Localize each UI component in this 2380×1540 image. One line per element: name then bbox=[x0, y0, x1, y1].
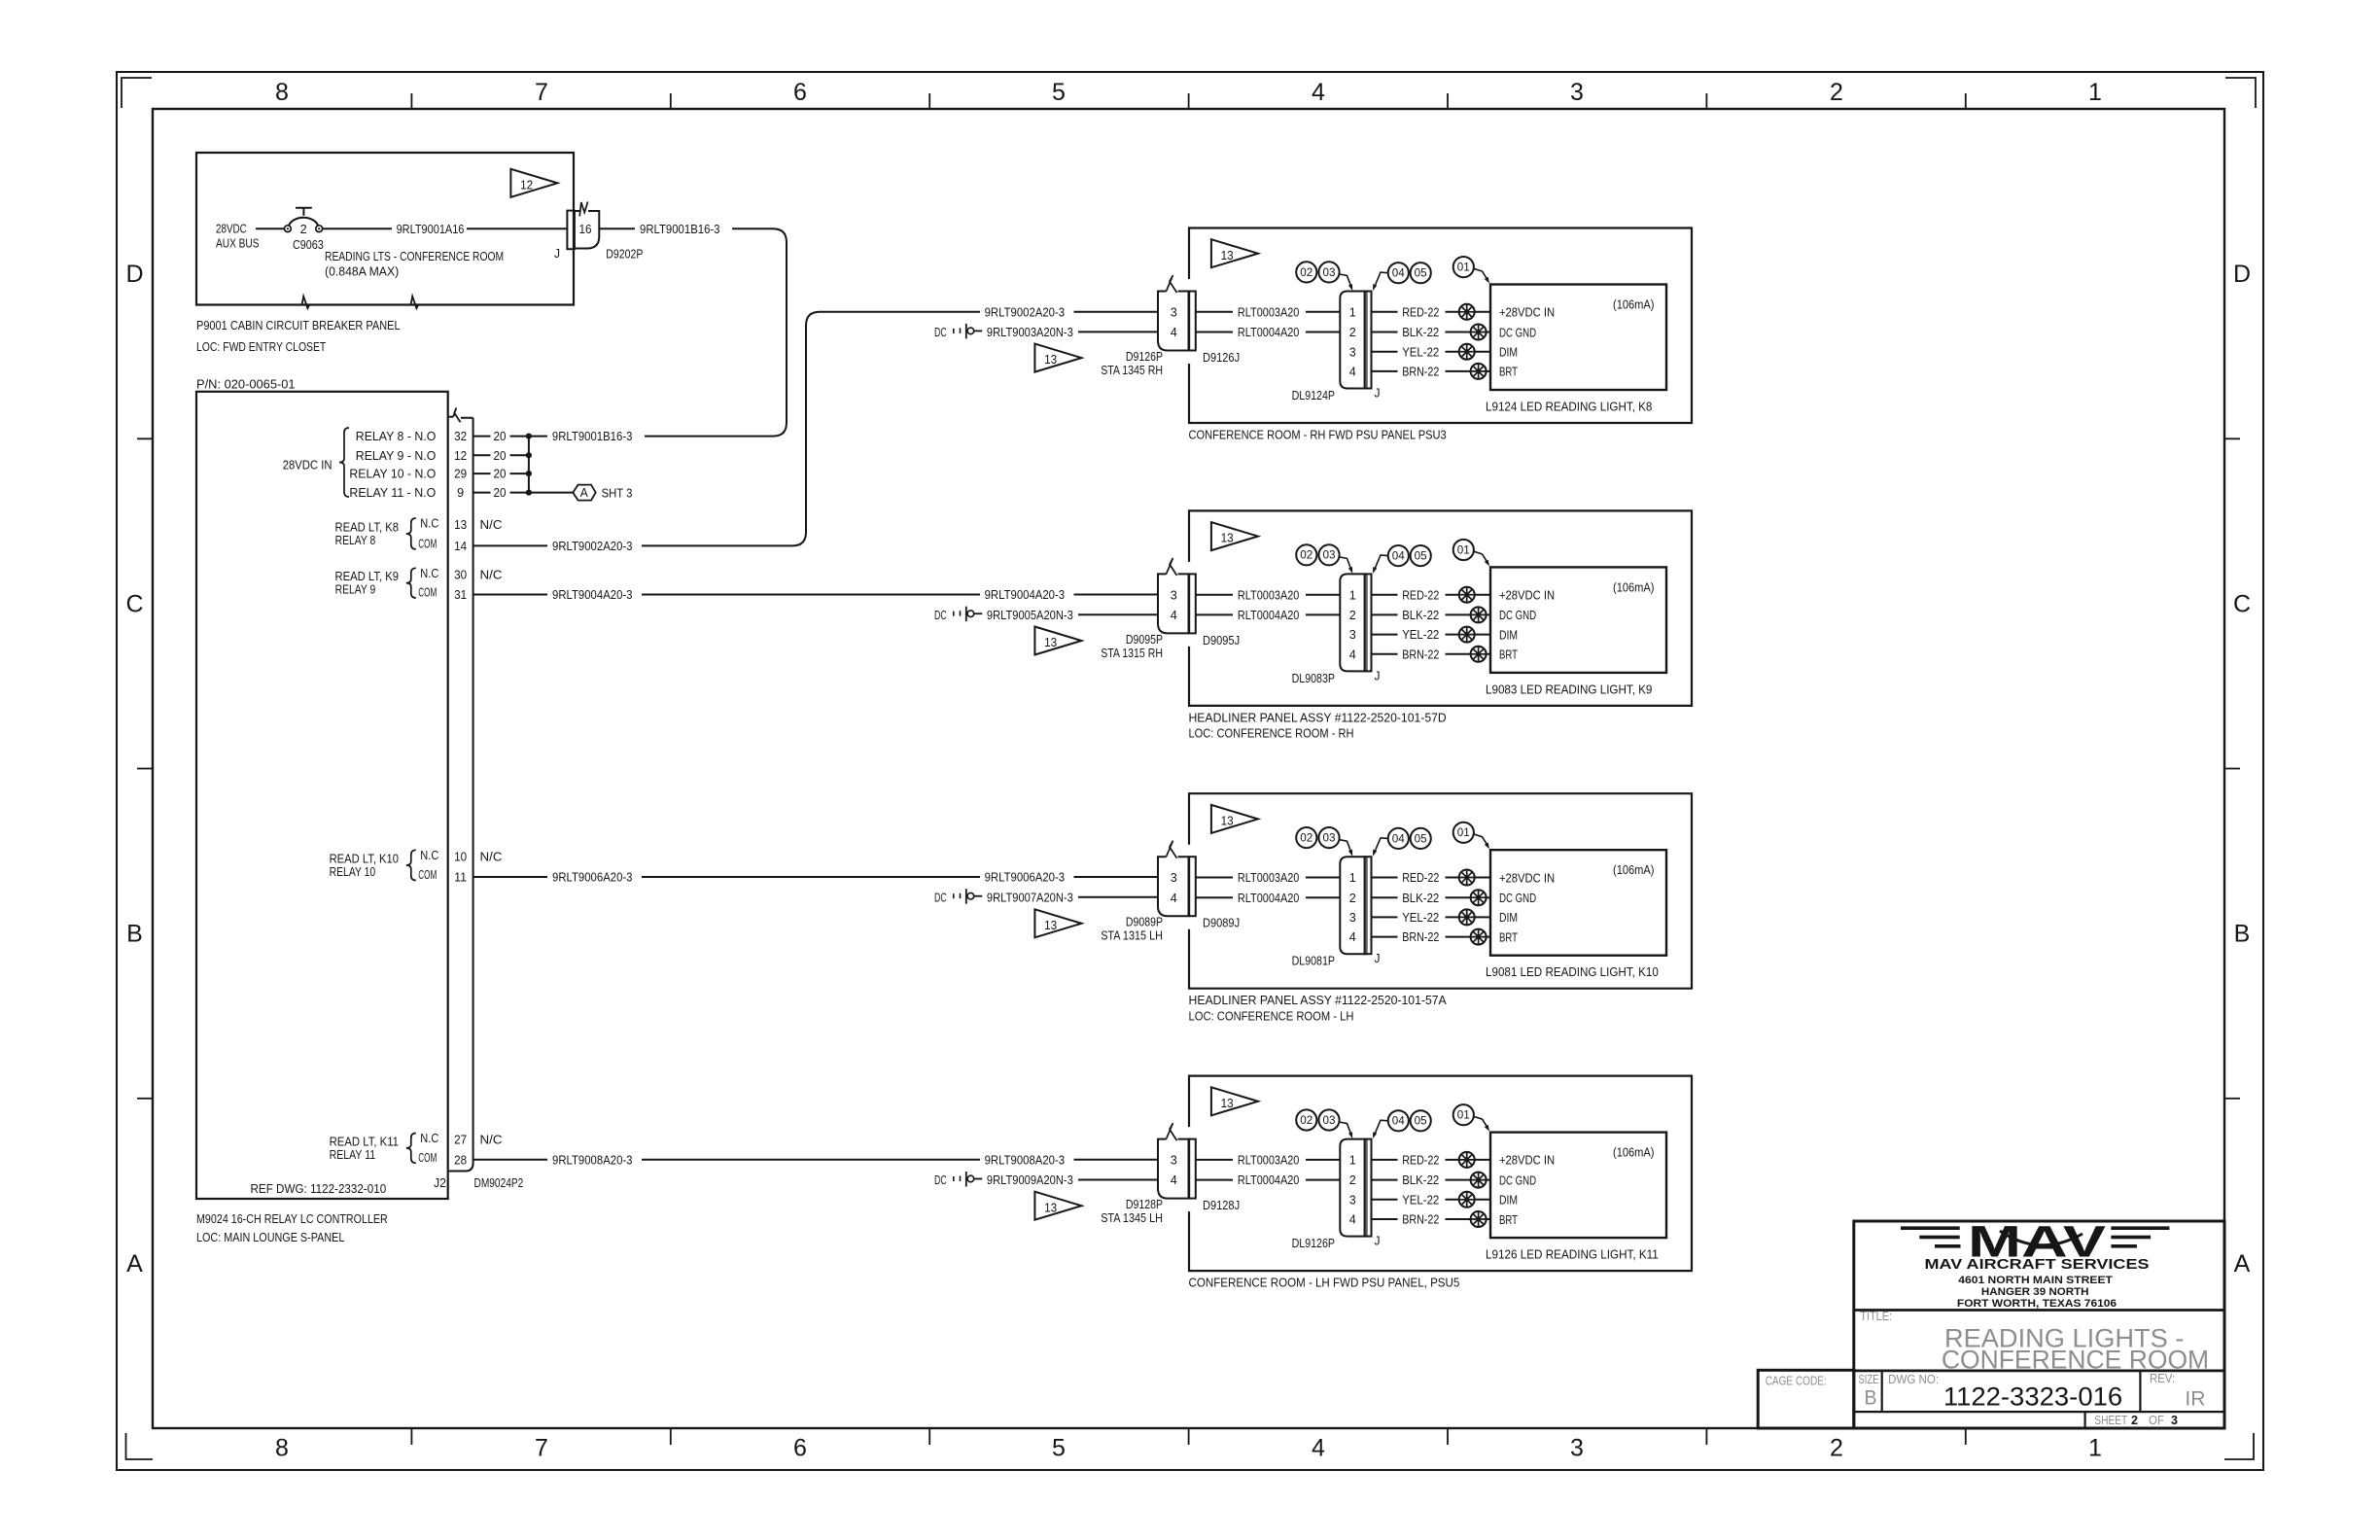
wire stub pin relay 10 with gauge 20 bbox=[473, 468, 529, 481]
svg-text:STA 1345 RH: STA 1345 RH bbox=[1101, 364, 1163, 377]
brace READ LT, K9 bbox=[406, 568, 416, 598]
wire RLT0003A20 A4 bbox=[1196, 1154, 1341, 1168]
svg-text:RED-22: RED-22 bbox=[1402, 305, 1439, 319]
wire RLT0004A20 A3 bbox=[1196, 892, 1341, 905]
label STA 1315 RH bbox=[1101, 647, 1163, 660]
leader 01 A4 bbox=[1474, 1116, 1489, 1131]
svg-text:D9126J: D9126J bbox=[1203, 351, 1240, 365]
svg-text:29: 29 bbox=[454, 468, 467, 481]
svg-text:9RLT9001B16-3: 9RLT9001B16-3 bbox=[640, 223, 720, 236]
callout circles 02 03 A1 bbox=[1296, 262, 1339, 282]
label READ LT, K8 bbox=[335, 521, 400, 548]
svg-text:+28VDC IN: +28VDC IN bbox=[1499, 306, 1555, 320]
label DL9083P bbox=[1292, 672, 1335, 685]
LED light unit box A4 bbox=[1490, 1133, 1666, 1239]
connector J2 bar bbox=[448, 408, 473, 1172]
light assembly box A1 bbox=[1189, 228, 1692, 424]
connector receptacle J A2 bbox=[1365, 574, 1372, 671]
callout circles 02 03 A3 bbox=[1296, 827, 1339, 848]
label DM9024P2 bbox=[474, 1176, 524, 1190]
DC return wire 9RLT9009A20N-3 bbox=[934, 1172, 1158, 1187]
MAV logo letters bbox=[1968, 1217, 2106, 1267]
svg-text:DWG NO:: DWG NO: bbox=[1888, 1373, 1939, 1386]
leader 04 A4 bbox=[1373, 1120, 1387, 1138]
title block divider logo/title bbox=[1854, 1309, 2224, 1312]
title READING LIGHTS - bbox=[1944, 1324, 2184, 1353]
svg-text:9RLT9005A20N-3: 9RLT9005A20N-3 bbox=[987, 609, 1073, 622]
pin 11 bbox=[454, 871, 467, 885]
svg-text:05: 05 bbox=[1415, 551, 1427, 563]
light assembly box A3 bbox=[1189, 793, 1692, 989]
label COM READ LT, K8 bbox=[418, 537, 437, 550]
leader 03 A4 bbox=[1340, 1122, 1352, 1138]
svg-text:3: 3 bbox=[1349, 345, 1356, 359]
svg-text:LOC: CONFERENCE ROOM - RH: LOC: CONFERENCE ROOM - RH bbox=[1189, 727, 1354, 741]
28VDC bus vertical bbox=[528, 437, 530, 493]
label D9095P bbox=[1126, 633, 1163, 647]
flag 13 lower A2 bbox=[1034, 627, 1081, 655]
svg-text:1: 1 bbox=[1349, 305, 1356, 319]
callout circles 04 05 A4 bbox=[1388, 1110, 1431, 1131]
label D9128P bbox=[1126, 1198, 1163, 1211]
wire 9RLT9002A20-3 relay K8 COM to D9126P bbox=[473, 305, 1158, 553]
svg-text:1: 1 bbox=[2088, 79, 2102, 106]
wire 28VDC to breaker bbox=[256, 227, 285, 229]
svg-text:4: 4 bbox=[1171, 326, 1177, 339]
callout circle 01 A3 bbox=[1453, 822, 1474, 843]
svg-text:L9083 LED READING LIGHT, K9: L9083 LED READING LIGHT, K9 bbox=[1486, 682, 1652, 696]
svg-text:6: 6 bbox=[793, 79, 807, 106]
flag 13 upper A3 bbox=[1211, 805, 1258, 833]
label L9081 LED READING LIGHT, K10 bbox=[1486, 965, 1659, 979]
svg-text:28VDC: 28VDC bbox=[216, 223, 247, 236]
label 106mA A2 bbox=[1613, 580, 1655, 594]
label N/C pin 30 bbox=[480, 568, 503, 581]
svg-text:1122-3323-016: 1122-3323-016 bbox=[1943, 1382, 2122, 1412]
svg-text:L9126 LED READING LIGHT, K11: L9126 LED READING LIGHT, K11 bbox=[1486, 1248, 1659, 1262]
svg-text:BLK-22: BLK-22 bbox=[1402, 892, 1439, 905]
svg-text:28: 28 bbox=[454, 1153, 467, 1167]
title block divider title/dwg bbox=[1854, 1370, 2224, 1373]
wire YEL-22 A2 bbox=[1372, 628, 1491, 642]
caption A1 line 1 bbox=[1189, 429, 1447, 442]
svg-text:OF: OF bbox=[2149, 1414, 2164, 1427]
splice BRN-22 A1 bbox=[1471, 364, 1487, 379]
svg-text:4: 4 bbox=[1171, 609, 1177, 622]
splice RED-22 A1 bbox=[1459, 304, 1475, 320]
wire BLK-22 A4 bbox=[1372, 1173, 1491, 1187]
inner border frame bbox=[153, 109, 2224, 1428]
label 106mA A4 bbox=[1613, 1146, 1655, 1160]
splice YEL-22 A1 bbox=[1459, 344, 1475, 360]
svg-text:N.C: N.C bbox=[420, 1132, 438, 1145]
flag 13 lower A1 bbox=[1034, 344, 1081, 372]
label L9124 LED READING LIGHT, K8 bbox=[1486, 401, 1652, 414]
svg-text:+28VDC IN: +28VDC IN bbox=[1499, 589, 1555, 603]
label READ LT, K9 bbox=[335, 570, 400, 597]
pin 12 bbox=[454, 449, 467, 463]
svg-text:13: 13 bbox=[1221, 1097, 1234, 1110]
svg-text:05: 05 bbox=[1415, 833, 1427, 845]
caption A3 line 2 bbox=[1189, 1010, 1354, 1024]
flag 13 upper A2 bbox=[1211, 522, 1258, 550]
leader 04 A1 bbox=[1373, 272, 1387, 291]
svg-text:(106mA): (106mA) bbox=[1613, 298, 1655, 312]
svg-text:9RLT9008A20-3: 9RLT9008A20-3 bbox=[552, 1153, 633, 1167]
svg-text:DIM: DIM bbox=[1499, 911, 1518, 925]
svg-text:2: 2 bbox=[1349, 1173, 1356, 1187]
label SIZE bbox=[1859, 1373, 1879, 1386]
svg-text:BRN-22: BRN-22 bbox=[1402, 366, 1439, 379]
svg-text:D9126P: D9126P bbox=[1126, 350, 1163, 364]
svg-text:4: 4 bbox=[1349, 930, 1356, 944]
svg-text:BRT: BRT bbox=[1499, 366, 1518, 379]
circuit breaker C9063 bbox=[285, 208, 323, 236]
wire RLT0004A20 A2 bbox=[1196, 609, 1341, 622]
pins 1-4 A3 bbox=[1349, 871, 1356, 944]
svg-text:1: 1 bbox=[1349, 871, 1356, 885]
svg-text:DC GND: DC GND bbox=[1499, 609, 1536, 622]
wire RLT0004A20 A1 bbox=[1196, 326, 1341, 339]
splice BLK-22 A2 bbox=[1471, 607, 1487, 622]
svg-text:SHEET: SHEET bbox=[2094, 1414, 2127, 1427]
svg-text:01: 01 bbox=[1457, 544, 1470, 556]
svg-text:B: B bbox=[2234, 921, 2251, 948]
svg-text:READ LT, K11: READ LT, K11 bbox=[330, 1135, 399, 1148]
svg-text:N/C: N/C bbox=[480, 568, 503, 581]
svg-text:RED-22: RED-22 bbox=[1402, 871, 1439, 885]
svg-text:C: C bbox=[2233, 590, 2251, 617]
svg-text:RLT0004A20: RLT0004A20 bbox=[1238, 892, 1300, 905]
svg-text:04: 04 bbox=[1392, 268, 1406, 280]
label RELAY 10 - N.O bbox=[349, 468, 436, 481]
svg-text:03: 03 bbox=[1323, 267, 1336, 279]
callout circles 04 05 A2 bbox=[1388, 545, 1431, 566]
label RELAY 11 - N.O bbox=[349, 486, 436, 500]
svg-text:J: J bbox=[1375, 387, 1381, 401]
svg-text:J: J bbox=[1375, 952, 1381, 965]
svg-text:J: J bbox=[554, 247, 560, 261]
splice YEL-22 A3 bbox=[1459, 909, 1475, 925]
cage code box bbox=[1758, 1370, 1854, 1428]
svg-text:RELAY 11: RELAY 11 bbox=[330, 1148, 376, 1162]
svg-text:20: 20 bbox=[494, 486, 507, 500]
pins 1-4 A2 bbox=[1349, 588, 1356, 661]
svg-text:9RLT9003A20N-3: 9RLT9003A20N-3 bbox=[987, 326, 1073, 339]
svg-text:4601 NORTH MAIN STREET: 4601 NORTH MAIN STREET bbox=[1958, 1275, 2113, 1286]
svg-text:10: 10 bbox=[454, 850, 467, 863]
pin 4 A4 bbox=[1171, 1173, 1177, 1187]
label COM READ LT, K11 bbox=[418, 1151, 437, 1165]
svg-text:2: 2 bbox=[2131, 1414, 2138, 1427]
svg-text:A: A bbox=[580, 486, 589, 500]
svg-text:P9001 CABIN CIRCUIT BREAKER PA: P9001 CABIN CIRCUIT BREAKER PANEL bbox=[196, 319, 401, 332]
svg-text:9RLT9008A20-3: 9RLT9008A20-3 bbox=[985, 1153, 1066, 1167]
svg-text:4: 4 bbox=[1349, 647, 1356, 661]
svg-text:01: 01 bbox=[1457, 827, 1470, 839]
flag 13 upper A1 bbox=[1211, 239, 1258, 267]
MAV logo speed lines left bbox=[1901, 1226, 1961, 1247]
label DL9124P bbox=[1292, 389, 1335, 402]
pin 10 bbox=[454, 850, 467, 863]
label N/C pin 27 bbox=[480, 1134, 503, 1147]
label STA 1315 LH bbox=[1101, 929, 1163, 943]
svg-text:AUX BUS: AUX BUS bbox=[216, 237, 260, 251]
connector receptacle J A4 bbox=[1365, 1139, 1372, 1237]
svg-text:RED-22: RED-22 bbox=[1402, 1154, 1439, 1168]
pin 31 bbox=[454, 588, 467, 602]
wire RED-22 A4 bbox=[1372, 1154, 1491, 1168]
svg-text:C9063: C9063 bbox=[293, 238, 324, 252]
label COM READ LT, K9 bbox=[418, 586, 437, 600]
svg-text:DM9024P2: DM9024P2 bbox=[474, 1176, 524, 1190]
svg-text:3: 3 bbox=[1171, 1154, 1177, 1168]
svg-text:8: 8 bbox=[275, 79, 289, 106]
label N/C pin 10 bbox=[480, 850, 503, 863]
svg-text:RELAY 9: RELAY 9 bbox=[335, 583, 376, 597]
connector receptacle J A3 bbox=[1365, 857, 1372, 954]
label RELAY 9 - N.O bbox=[356, 449, 437, 463]
svg-text:05: 05 bbox=[1415, 268, 1427, 280]
svg-text:8: 8 bbox=[275, 1435, 289, 1462]
svg-text:(106mA): (106mA) bbox=[1613, 1146, 1655, 1160]
zone letters right bbox=[2233, 261, 2251, 1277]
svg-text:04: 04 bbox=[1392, 1116, 1406, 1128]
label STA 1345 RH bbox=[1101, 364, 1163, 377]
corner mark top-left bbox=[122, 78, 152, 108]
svg-text:HEADLINER PANEL ASSY #1122-252: HEADLINER PANEL ASSY #1122-2520-101-57D bbox=[1189, 711, 1447, 724]
pin 9 bbox=[457, 486, 464, 500]
brace READ LT, K8 bbox=[406, 518, 416, 549]
svg-text:LOC: CONFERENCE ROOM - LH: LOC: CONFERENCE ROOM - LH bbox=[1189, 1010, 1354, 1024]
svg-text:5: 5 bbox=[1052, 1435, 1066, 1462]
label P9001 CABIN CIRCUIT BREAKER PANEL bbox=[196, 319, 401, 354]
corner mark bottom-left bbox=[126, 1433, 154, 1459]
label 106mA A1 bbox=[1613, 298, 1655, 312]
svg-text:REF DWG: 1122-2332-010: REF DWG: 1122-2332-010 bbox=[251, 1182, 387, 1196]
svg-text:01: 01 bbox=[1457, 262, 1470, 274]
svg-text:L9124 LED READING LIGHT, K8: L9124 LED READING LIGHT, K8 bbox=[1486, 401, 1652, 414]
pin 29 bbox=[454, 468, 467, 481]
pin 28 bbox=[454, 1153, 467, 1167]
svg-text:4: 4 bbox=[1171, 1173, 1177, 1187]
svg-text:04: 04 bbox=[1392, 833, 1406, 845]
svg-text:READ LT, K9: READ LT, K9 bbox=[335, 570, 400, 583]
wire RED-22 A3 bbox=[1372, 871, 1491, 885]
pin 3 A2 bbox=[1171, 588, 1177, 602]
wire 9RLT9004A20-3 relay COM to assembly bbox=[473, 588, 1158, 602]
svg-text:STA 1345 LH: STA 1345 LH bbox=[1101, 1211, 1163, 1225]
svg-text:4: 4 bbox=[1349, 1213, 1356, 1227]
svg-text:20: 20 bbox=[494, 430, 507, 443]
svg-text:D9089J: D9089J bbox=[1203, 917, 1240, 930]
breaker panel P9001 box bbox=[196, 153, 574, 308]
corner mark bottom-right bbox=[2224, 1433, 2254, 1459]
svg-text:9RLT9002A20-3: 9RLT9002A20-3 bbox=[985, 305, 1066, 319]
svg-text:02: 02 bbox=[1300, 267, 1312, 279]
svg-text:9RLT9002A20-3: 9RLT9002A20-3 bbox=[552, 540, 633, 553]
svg-text:+28VDC IN: +28VDC IN bbox=[1499, 1154, 1555, 1168]
wire BRN-22 A4 bbox=[1372, 1213, 1491, 1227]
label 28VDC AUX BUS bbox=[216, 223, 260, 251]
leader 04 A2 bbox=[1373, 555, 1387, 574]
svg-text:RLT0004A20: RLT0004A20 bbox=[1238, 326, 1300, 339]
svg-text:D9202P: D9202P bbox=[606, 247, 643, 261]
connector receptacle D9089J bbox=[1189, 857, 1196, 916]
label D9095J bbox=[1203, 634, 1240, 647]
svg-text:BLK-22: BLK-22 bbox=[1402, 326, 1439, 339]
label D9126J bbox=[1203, 351, 1240, 365]
svg-text:RELAY 10: RELAY 10 bbox=[330, 865, 376, 879]
DC return wire 9RLT9003A20N-3 bbox=[934, 324, 1158, 339]
svg-text:2: 2 bbox=[1349, 326, 1356, 339]
pin 32 bbox=[454, 430, 467, 443]
svg-text:YEL-22: YEL-22 bbox=[1402, 345, 1439, 359]
wire stub pin relay 11 with gauge 20 bbox=[473, 486, 529, 500]
pin 3 A1 bbox=[1171, 305, 1177, 319]
flag 12 bbox=[510, 169, 557, 197]
svg-text:9: 9 bbox=[457, 486, 464, 500]
pin 14 bbox=[454, 540, 467, 553]
wire BRN-22 A1 bbox=[1372, 366, 1491, 379]
svg-text:13: 13 bbox=[1044, 636, 1057, 649]
svg-text:(106mA): (106mA) bbox=[1613, 580, 1655, 594]
svg-text:N.C: N.C bbox=[420, 567, 438, 580]
label TITLE: bbox=[1860, 1310, 1892, 1323]
label N.C READ LT, K9 bbox=[420, 567, 438, 580]
svg-text:TITLE:: TITLE: bbox=[1860, 1310, 1892, 1323]
svg-text:DIM: DIM bbox=[1499, 346, 1518, 360]
svg-text:BLK-22: BLK-22 bbox=[1402, 609, 1439, 622]
svg-text:13: 13 bbox=[1221, 532, 1234, 545]
label N.C READ LT, K11 bbox=[420, 1132, 438, 1145]
svg-text:04: 04 bbox=[1392, 551, 1406, 563]
svg-text:13: 13 bbox=[1221, 249, 1234, 262]
svg-text:M9024 16-CH RELAY LC CONTROLLE: M9024 16-CH RELAY LC CONTROLLER bbox=[196, 1212, 388, 1226]
callout circle 01 A2 bbox=[1453, 540, 1474, 560]
svg-text:4: 4 bbox=[1171, 892, 1177, 905]
zone ticks top border bbox=[411, 93, 1965, 109]
wire BRN-22 A3 bbox=[1372, 930, 1491, 944]
label D9128J bbox=[1203, 1199, 1240, 1212]
splice YEL-22 A4 bbox=[1459, 1192, 1475, 1207]
callout circles 04 05 A3 bbox=[1388, 828, 1431, 849]
svg-text:RLT0003A20: RLT0003A20 bbox=[1238, 588, 1300, 602]
LED light unit box A2 bbox=[1490, 567, 1666, 673]
svg-text:2: 2 bbox=[1349, 892, 1356, 905]
svg-text:7: 7 bbox=[535, 79, 548, 106]
svg-text:5: 5 bbox=[1052, 79, 1066, 106]
svg-text:DC: DC bbox=[934, 326, 947, 339]
wire YEL-22 A4 bbox=[1372, 1193, 1491, 1207]
svg-text:9RLT9004A20-3: 9RLT9004A20-3 bbox=[552, 588, 633, 602]
svg-text:D: D bbox=[125, 261, 143, 288]
label STA 1345 LH bbox=[1101, 1211, 1163, 1225]
svg-text:SHT 3: SHT 3 bbox=[602, 487, 633, 501]
light assembly box A2 bbox=[1189, 510, 1692, 706]
wire stub pin relay 8 with gauge 20 bbox=[473, 430, 529, 443]
caption A2 line 1 bbox=[1189, 711, 1447, 724]
junction dots 28VDC bus bbox=[526, 434, 532, 496]
zone numbers top bbox=[275, 79, 2102, 106]
connector plug D9095P bbox=[1158, 558, 1189, 634]
light pin labels A1 bbox=[1499, 306, 1555, 379]
wire RLT0003A20 A2 bbox=[1196, 588, 1341, 602]
pin 27 bbox=[454, 1134, 467, 1147]
title block divider dwg/sheet bbox=[1854, 1411, 2224, 1413]
svg-text:N/C: N/C bbox=[480, 518, 503, 532]
label D9089J bbox=[1203, 917, 1240, 930]
svg-text:D9095J: D9095J bbox=[1203, 634, 1240, 647]
MAV logo speed lines right bbox=[2111, 1226, 2169, 1247]
label L9083 LED READING LIGHT, K9 bbox=[1486, 682, 1652, 696]
svg-text:RLT0004A20: RLT0004A20 bbox=[1238, 1173, 1300, 1187]
svg-text:1: 1 bbox=[1349, 1154, 1356, 1168]
svg-text:D9089P: D9089P bbox=[1126, 916, 1163, 929]
svg-text:9RLT9009A20N-3: 9RLT9009A20N-3 bbox=[987, 1173, 1073, 1187]
connector receptacle J A1 bbox=[1365, 292, 1372, 389]
wire BLK-22 A2 bbox=[1372, 609, 1491, 622]
pin 30 bbox=[454, 568, 467, 581]
svg-text:DL9081P: DL9081P bbox=[1292, 955, 1335, 968]
brace READ LT, K10 bbox=[406, 850, 416, 880]
title block frame bbox=[1854, 1221, 2224, 1428]
svg-text:SIZE: SIZE bbox=[1859, 1373, 1879, 1386]
svg-text:20: 20 bbox=[494, 468, 507, 481]
title block divider sheet cell bbox=[2084, 1412, 2086, 1428]
label J A3 bbox=[1375, 952, 1381, 965]
zone ticks bottom border bbox=[411, 1428, 1965, 1445]
leader 01 A3 bbox=[1474, 834, 1489, 849]
svg-text:CONFERENCE ROOM - RH FWD PSU P: CONFERENCE ROOM - RH FWD PSU PANEL PSU3 bbox=[1189, 429, 1447, 442]
svg-text:FORT WORTH, TEXAS 76106: FORT WORTH, TEXAS 76106 bbox=[1957, 1298, 2117, 1310]
leader 01 A2 bbox=[1474, 551, 1489, 566]
label READ LT, K11 bbox=[330, 1135, 399, 1162]
pin 4 A2 bbox=[1171, 609, 1177, 622]
connector plug DL9126P bbox=[1340, 1139, 1364, 1237]
brace READ LT, K11 bbox=[406, 1134, 416, 1164]
svg-text:CONFERENCE ROOM - LH FWD PSU: CONFERENCE ROOM - LH FWD PSU PANEL, PSU5 bbox=[1189, 1277, 1460, 1290]
label REF DWG: 1122-2332-010 bbox=[251, 1182, 387, 1196]
svg-text:BRT: BRT bbox=[1499, 1213, 1518, 1227]
svg-text:3: 3 bbox=[2171, 1414, 2178, 1427]
LED light unit box A1 bbox=[1490, 285, 1666, 391]
title CONFERENCE ROOM bbox=[1942, 1346, 2209, 1375]
svg-text:03: 03 bbox=[1323, 1115, 1336, 1127]
label D9126P bbox=[1126, 350, 1163, 364]
svg-text:READ LT, K10: READ LT, K10 bbox=[330, 852, 399, 865]
label P/N: 020-0065-01 bbox=[196, 378, 296, 392]
splice BLK-22 A4 bbox=[1471, 1172, 1487, 1188]
svg-text:4: 4 bbox=[1349, 366, 1356, 379]
splice BRN-22 A2 bbox=[1471, 647, 1487, 662]
connector plug DL9083P bbox=[1340, 574, 1364, 671]
svg-text:B: B bbox=[126, 921, 143, 948]
label REV: bbox=[2150, 1372, 2175, 1385]
label N.C READ LT, K8 bbox=[420, 517, 438, 531]
svg-text:DC GND: DC GND bbox=[1499, 892, 1536, 905]
svg-text:3: 3 bbox=[1349, 628, 1356, 642]
callout circle 01 A1 bbox=[1453, 257, 1474, 277]
label COM READ LT, K10 bbox=[418, 868, 437, 882]
svg-text:DL9126P: DL9126P bbox=[1292, 1237, 1335, 1250]
svg-text:BRN-22: BRN-22 bbox=[1402, 1213, 1439, 1227]
pin 4 A3 bbox=[1171, 892, 1177, 905]
svg-text:3: 3 bbox=[1570, 1435, 1584, 1462]
label J A2 bbox=[1375, 669, 1381, 682]
splice BRN-22 A3 bbox=[1471, 929, 1487, 945]
wire YEL-22 A1 bbox=[1372, 345, 1491, 359]
